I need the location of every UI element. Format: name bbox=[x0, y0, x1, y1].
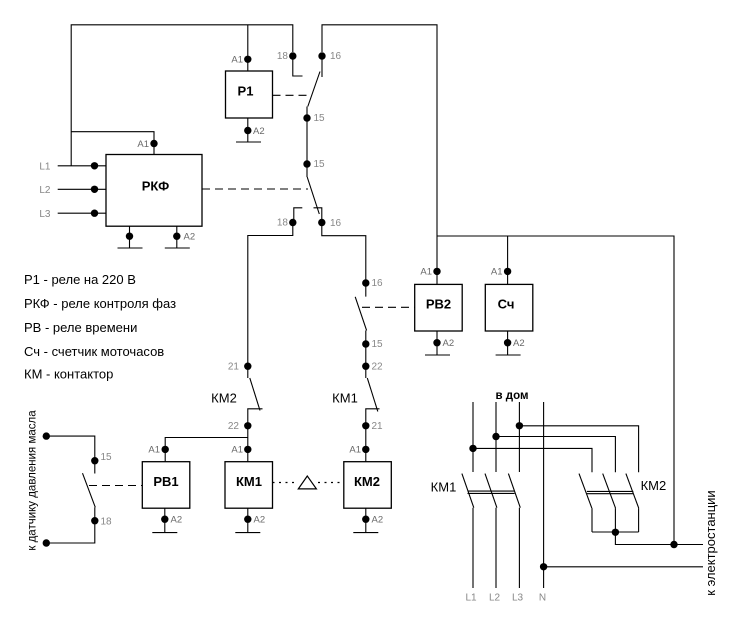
contact KM1 aux seat bbox=[366, 409, 380, 426]
svg-text:16: 16 bbox=[330, 218, 342, 229]
node 18 (oil switch) bbox=[91, 517, 98, 524]
node 22 (KM1 aux) bbox=[362, 363, 369, 370]
node L3 junction bbox=[516, 422, 523, 429]
svg-text:КМ2: КМ2 bbox=[354, 474, 380, 489]
wire L1 pin bbox=[58, 165, 106, 167]
wire 21 to A1 KM2 bbox=[365, 426, 367, 462]
contact KM1 pole3 blade bbox=[508, 474, 520, 508]
node A1 KM2 bbox=[362, 446, 369, 453]
svg-text:15: 15 bbox=[372, 339, 384, 350]
svg-text:КМ1: КМ1 bbox=[236, 474, 262, 489]
node A2 P1 bbox=[244, 127, 251, 134]
wire L3 feed to KM2 bbox=[519, 426, 638, 472]
svg-text:L1: L1 bbox=[465, 593, 477, 604]
node L3 pin bbox=[91, 210, 98, 217]
wire Sch A1 drop bbox=[507, 236, 509, 284]
contact oil switch blade bbox=[83, 473, 96, 507]
wire sensor top bbox=[46, 436, 95, 473]
wire RKF A2 pin bbox=[176, 226, 178, 248]
wire phase L1 lower bbox=[472, 508, 474, 588]
wire branch to RKF A1 bbox=[71, 132, 154, 154]
wire neutral N bbox=[543, 402, 545, 588]
node 16 (P1 contact top) bbox=[318, 52, 325, 59]
time relay RV1 bbox=[142, 462, 190, 509]
node bus to generator bbox=[670, 541, 677, 548]
wire P1 A1 drop bbox=[247, 25, 249, 71]
interlock dotted line right bbox=[318, 482, 344, 484]
ground RKF 2 bbox=[165, 247, 190, 249]
node RKF A2 pin bbox=[173, 233, 180, 240]
wire top bus left segment bbox=[71, 25, 293, 166]
wire control bus horizontal bbox=[437, 236, 674, 545]
node 15 upper bbox=[303, 114, 310, 121]
svg-text:РВ - реле времени: РВ - реле времени bbox=[24, 320, 137, 335]
svg-text:A1: A1 bbox=[420, 267, 432, 278]
dashed link RV2 to contact bbox=[362, 306, 415, 308]
node 18 (P1 contact top) bbox=[289, 52, 296, 59]
wire generator neutral bbox=[544, 566, 703, 568]
node A2 KM2 bbox=[362, 516, 369, 523]
svg-text:КМ2: КМ2 bbox=[641, 478, 667, 493]
ground P1 bbox=[236, 141, 261, 143]
contact KM2 pole1 blade bbox=[579, 474, 592, 509]
svg-text:A1: A1 bbox=[491, 267, 503, 278]
svg-text:Р1 - реле на 220 В: Р1 - реле на 220 В bbox=[24, 272, 136, 287]
svg-text:L3: L3 bbox=[512, 593, 524, 604]
dashed link P1 to contact bbox=[273, 94, 308, 96]
svg-text:Сч: Сч bbox=[498, 297, 515, 312]
wire blade to 15 bbox=[365, 330, 367, 378]
svg-text:A1: A1 bbox=[231, 445, 243, 456]
contact RKF fixed 16 seat bbox=[314, 208, 322, 223]
node L2 junction bbox=[492, 433, 499, 440]
ground Sch bbox=[496, 354, 521, 356]
svg-text:22: 22 bbox=[372, 361, 384, 372]
hour counter Sch bbox=[485, 284, 533, 331]
contact RKF fixed 18 seat bbox=[294, 208, 303, 223]
svg-text:РКФ - реле контроля фаз: РКФ - реле контроля фаз bbox=[24, 296, 176, 311]
wire phase L2 lower bbox=[495, 508, 497, 588]
wire 22 to A1 KM1 bbox=[247, 426, 249, 462]
svg-text:15: 15 bbox=[314, 113, 326, 124]
svg-text:15: 15 bbox=[101, 452, 113, 463]
wire L2 pin bbox=[58, 188, 106, 190]
KM2 mechanical tie bbox=[587, 490, 633, 492]
node A2 RV2 bbox=[433, 339, 440, 346]
wire L1 feed to KM2 bbox=[473, 448, 592, 472]
svg-text:КМ - контактор: КМ - контактор bbox=[24, 367, 113, 382]
wire RV2 A1 lead bbox=[436, 236, 438, 284]
ground KM1 bbox=[235, 532, 260, 534]
wire RV1 A2 lead bbox=[164, 508, 166, 532]
wire L3 pin bbox=[58, 212, 106, 214]
node 18 lower bbox=[289, 219, 296, 226]
svg-text:РВ2: РВ2 bbox=[426, 297, 451, 312]
KM1 mechanical tie bbox=[468, 490, 515, 492]
wire phase L1 upper bbox=[472, 402, 474, 472]
contact P1 blade bbox=[308, 72, 320, 107]
wire KM2 A2 lead bbox=[365, 508, 367, 532]
node A2 Sch bbox=[504, 339, 511, 346]
node A1 RKF bbox=[150, 140, 157, 147]
interlock dotted line left bbox=[273, 482, 298, 484]
wire top bus right segment bbox=[322, 25, 437, 236]
wire KM2 pole2 lower bbox=[614, 508, 616, 532]
node A2 RV1 bbox=[161, 516, 168, 523]
svg-text:A2: A2 bbox=[171, 515, 183, 526]
contact KM2 aux seat bbox=[248, 409, 263, 426]
svg-text:A2: A2 bbox=[254, 515, 266, 526]
svg-text:КМ1: КМ1 bbox=[431, 480, 457, 495]
wire 18 to KM2 aux column bbox=[248, 223, 293, 379]
wire RV2 A2 lead bbox=[436, 331, 438, 355]
svg-text:A1: A1 bbox=[349, 445, 361, 456]
terminal dot upper (oil sensor) bbox=[43, 432, 50, 439]
contact RKF blade bbox=[307, 177, 319, 214]
svg-text:к электростанции: к электростанции bbox=[703, 490, 718, 595]
contact KM1 aux blade bbox=[367, 378, 378, 412]
svg-text:A2: A2 bbox=[372, 515, 384, 526]
node 16 (RV2 contact) bbox=[362, 279, 369, 286]
wire L2 feed to KM2 bbox=[496, 437, 615, 473]
ground KM2 bbox=[353, 532, 378, 534]
svg-text:КМ1: КМ1 bbox=[332, 391, 358, 406]
wire KM2 pole1 lower bbox=[591, 508, 593, 532]
svg-text:L2: L2 bbox=[39, 185, 51, 196]
relay P1 bbox=[226, 71, 273, 118]
node 22 (KM2 aux) bbox=[244, 422, 251, 429]
ground RV2 bbox=[425, 354, 450, 356]
contact KM2 pole2 blade bbox=[603, 474, 616, 509]
node RKF ground pin 1 bbox=[126, 233, 133, 240]
node KM2 output bbox=[612, 529, 619, 536]
svg-text:A2: A2 bbox=[443, 338, 455, 349]
node L1 pin bbox=[91, 162, 98, 169]
contact KM1 pole2 blade bbox=[485, 474, 497, 508]
node L1 junction bbox=[469, 445, 476, 452]
svg-text:18: 18 bbox=[101, 516, 113, 527]
wire RKF ground pin 1 bbox=[129, 226, 131, 248]
wire phase L3 lower bbox=[518, 508, 520, 588]
svg-text:к датчику давления масла: к датчику давления масла bbox=[27, 410, 39, 551]
node 16 lower bbox=[318, 219, 325, 226]
svg-text:КМ2: КМ2 bbox=[211, 391, 237, 406]
svg-text:A1: A1 bbox=[231, 55, 243, 66]
node A1 RV1 bbox=[162, 446, 169, 453]
wire RV1 A1 to KM1 A1 bbox=[165, 438, 248, 462]
contact RV2 blade bbox=[355, 297, 366, 331]
node A1 P1 bbox=[244, 56, 251, 63]
contact KM2 pole3 blade bbox=[626, 474, 639, 509]
node A1 KM1 bbox=[244, 446, 251, 453]
svg-text:A1: A1 bbox=[148, 445, 160, 456]
interlock triangle bbox=[298, 476, 316, 489]
svg-text:16: 16 bbox=[330, 51, 342, 62]
svg-text:A2: A2 bbox=[184, 232, 196, 243]
svg-text:16: 16 bbox=[372, 278, 384, 289]
wire sensor bottom bbox=[46, 507, 95, 543]
svg-text:L2: L2 bbox=[489, 593, 501, 604]
ground RV1 bbox=[152, 532, 177, 534]
svg-text:РКФ: РКФ bbox=[142, 179, 170, 194]
wire KM2 pole3 lower bbox=[638, 508, 640, 532]
svg-text:N: N bbox=[539, 593, 546, 604]
wire KM2 output bar bbox=[592, 531, 639, 533]
svg-text:L3: L3 bbox=[39, 209, 51, 220]
node A1 RV2 bbox=[433, 268, 440, 275]
node 15 lower bbox=[303, 160, 310, 167]
phase control relay RKF bbox=[106, 155, 202, 227]
dashed link oil switch to RV1 bbox=[89, 485, 142, 487]
svg-text:L1: L1 bbox=[39, 162, 51, 173]
node A1 Sch bbox=[504, 268, 511, 275]
wire phase L2 upper bbox=[495, 402, 497, 472]
wire 16 to RV2 contact column bbox=[322, 223, 366, 297]
wire P1 A2 lead bbox=[247, 118, 249, 142]
svg-text:в дом: в дом bbox=[496, 390, 529, 402]
svg-text:РВ1: РВ1 bbox=[153, 474, 178, 489]
contact P1 fixed 16 stem bbox=[321, 56, 323, 77]
svg-text:Сч - счетчик моточасов: Сч - счетчик моточасов bbox=[24, 344, 164, 359]
svg-text:21: 21 bbox=[228, 361, 240, 372]
svg-text:22: 22 bbox=[228, 421, 240, 432]
svg-text:15: 15 bbox=[314, 159, 326, 170]
node 21 (KM2 aux) bbox=[244, 363, 251, 370]
node N junction bbox=[540, 563, 547, 570]
node L2 pin bbox=[91, 186, 98, 193]
contactor coil KM1 bbox=[225, 462, 273, 509]
svg-text:18: 18 bbox=[277, 51, 289, 62]
contactor coil KM2 bbox=[344, 462, 392, 509]
svg-text:A1: A1 bbox=[137, 139, 149, 150]
node A2 KM1 bbox=[244, 516, 251, 523]
svg-text:A2: A2 bbox=[513, 338, 525, 349]
wire KM1 A2 lead bbox=[247, 508, 249, 532]
svg-text:21: 21 bbox=[372, 421, 384, 432]
wire Sch A2 lead bbox=[507, 331, 509, 355]
node 15 (oil switch) bbox=[91, 457, 98, 464]
wire 15-15 bbox=[306, 107, 308, 178]
contact P1 fixed 18 seat bbox=[293, 56, 303, 76]
svg-text:18: 18 bbox=[277, 217, 289, 228]
contact KM2 aux blade bbox=[250, 378, 260, 411]
wire generator phase bbox=[615, 532, 703, 544]
contact KM1 pole1 blade bbox=[462, 474, 474, 508]
node 15 (RV2 contact) bbox=[362, 340, 369, 347]
time relay RV2 bbox=[415, 284, 463, 331]
svg-text:A2: A2 bbox=[253, 126, 265, 137]
terminal dot lower (oil sensor) bbox=[43, 539, 50, 546]
node 21 (KM1 aux) bbox=[362, 422, 369, 429]
svg-text:Р1: Р1 bbox=[238, 83, 254, 98]
ground RKF 1 bbox=[118, 247, 143, 249]
dashed link RKF to contact bbox=[202, 188, 308, 190]
wire phase L3 upper bbox=[518, 402, 520, 472]
